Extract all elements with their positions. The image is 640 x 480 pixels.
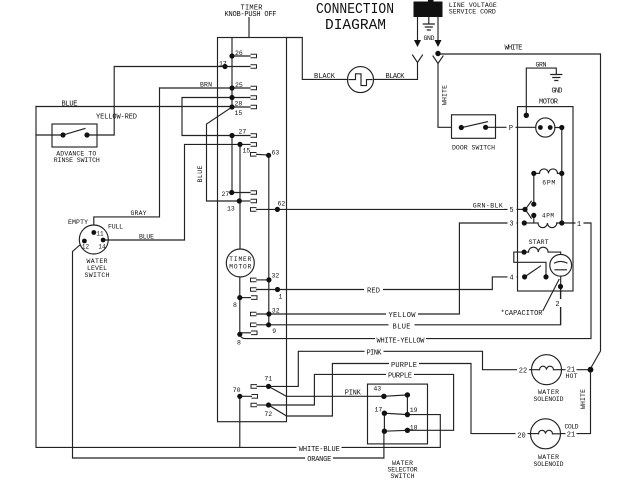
timer contact 15 row / wire BLUE from rinse switch <box>36 106 250 109</box>
svg-text:PINK: PINK <box>345 389 362 397</box>
svg-text:71: 71 <box>264 376 272 383</box>
capacitor C1 <box>550 254 572 324</box>
svg-text:GND: GND <box>424 35 435 42</box>
selector lever 43 <box>384 395 408 396</box>
plug left lead with disconnect arrows <box>413 17 423 63</box>
svg-text:FULL: FULL <box>108 224 123 231</box>
door switch dots <box>459 125 464 130</box>
svg-text:WHITE: WHITE <box>442 85 449 105</box>
svg-text:P: P <box>509 125 513 133</box>
motor thermal protector <box>518 118 562 137</box>
svg-text:WHITE: WHITE <box>580 389 587 409</box>
label WHITE rotated right <box>580 389 590 412</box>
wire PURPLE2 timer 72 to selector 18 <box>269 374 454 430</box>
wire BLUE water level 14 to riser <box>103 239 184 241</box>
svg-text:KNOB-PUSH OFF: KNOB-PUSH OFF <box>225 11 277 19</box>
svg-text:HOT: HOT <box>566 373 578 380</box>
timer rail 63-32-32-9 <box>268 155 270 324</box>
svg-text:WHITE-YELLOW: WHITE-YELLOW <box>377 338 426 346</box>
svg-text:*CAPACITOR: *CAPACITOR <box>501 310 544 318</box>
svg-text:DIAGRAM: DIAGRAM <box>325 17 386 34</box>
svg-text:5: 5 <box>509 207 513 215</box>
timer contact 15b row, riser from water level BLUE <box>185 144 251 239</box>
svg-text:SERVICE CORD: SERVICE CORD <box>449 9 496 16</box>
svg-text:BLUE: BLUE <box>393 324 411 332</box>
timer contact red-dot row / wire RED to motor pin 4 <box>257 277 518 290</box>
ground symbol under plug <box>423 17 434 30</box>
wire WHITE-BLUE long run to selector 19 <box>36 107 440 448</box>
svg-text:PURPLE: PURPLE <box>391 362 417 370</box>
timer contact 13 row <box>239 200 250 202</box>
svg-text:8: 8 <box>237 340 241 347</box>
timer contact 9 row / wire BLUE to capacitor pin 2 <box>257 287 561 325</box>
timer contact 32L row / wire YELLOW to motor pin 3 <box>257 223 518 314</box>
svg-text:ORANGE: ORANGE <box>307 456 331 464</box>
svg-text:72: 72 <box>264 411 272 418</box>
svg-text:15: 15 <box>235 110 243 117</box>
svg-text:4: 4 <box>509 275 513 283</box>
svg-text:28: 28 <box>235 101 243 108</box>
wire BLACK from timer top to left plug lead <box>287 38 418 80</box>
svg-text:21: 21 <box>567 431 575 439</box>
timer lever 71 <box>269 386 287 396</box>
svg-text:YELLOW: YELLOW <box>389 312 417 320</box>
svg-text:2: 2 <box>555 301 559 309</box>
svg-text:22: 22 <box>519 367 527 375</box>
wire WHITE down to door switch <box>438 64 461 128</box>
timer contact 8 lower row <box>240 332 251 334</box>
svg-text:3: 3 <box>509 221 513 229</box>
motor 4PM winding <box>524 223 573 228</box>
svg-text:WATER: WATER <box>87 258 108 265</box>
svg-text:26: 26 <box>235 50 243 57</box>
timer contact 71 row <box>257 385 269 387</box>
label 2 capacitor <box>554 299 562 309</box>
wire WHITE-YELLOW from timer 8 to motor pin 1 <box>240 223 591 339</box>
svg-text:27: 27 <box>239 129 247 136</box>
timer contact 27b row <box>232 192 250 194</box>
timer contact 26 <box>232 55 250 57</box>
svg-text:32: 32 <box>272 308 280 315</box>
plug right lead with disconnect arrows <box>433 17 443 64</box>
water level switch S3 <box>79 225 108 254</box>
svg-text:15: 15 <box>243 148 251 155</box>
timer lever 72 <box>269 405 287 416</box>
motor 6PM winding <box>534 169 562 174</box>
capacitor callout line <box>543 280 559 311</box>
selector switch box <box>368 384 428 444</box>
svg-text:9: 9 <box>272 328 276 335</box>
timer box outline <box>218 38 287 422</box>
wire GRN and chassis ground <box>526 68 562 115</box>
label GRN-BLK and motor pin numbers <box>471 201 504 210</box>
svg-text:63: 63 <box>272 150 280 157</box>
timer rail 15b-13-timer motor <box>239 144 241 249</box>
svg-text:4PM: 4PM <box>542 213 554 220</box>
wire WHITE right side to cold solenoid <box>561 370 591 434</box>
svg-text:GRN: GRN <box>536 62 547 69</box>
selector lever 17-19 <box>384 413 407 414</box>
motor box outline <box>518 107 574 291</box>
motor start switch jog <box>514 252 546 277</box>
svg-text:WHITE-BLUE: WHITE-BLUE <box>299 446 340 454</box>
svg-text:SWITCH: SWITCH <box>391 473 415 480</box>
rinse switch dots <box>60 132 65 137</box>
node hot solenoid 21 <box>588 367 594 373</box>
svg-text:43: 43 <box>373 386 381 393</box>
svg-text:PURPLE: PURPLE <box>388 373 412 381</box>
timer contact 32 row <box>257 279 269 281</box>
cold water solenoid L2 <box>531 419 561 449</box>
svg-text:20: 20 <box>517 432 525 440</box>
hot water solenoid L1 <box>532 355 591 385</box>
selector rail 43b-19 <box>406 395 408 415</box>
svg-text:BLACK: BLACK <box>386 73 406 81</box>
svg-text:SOLENOID: SOLENOID <box>534 461 564 468</box>
wire PINK timer 71 to hot solenoid <box>269 351 532 386</box>
timer contact dots <box>229 53 234 58</box>
door switch S1 <box>452 115 518 139</box>
timer lever 15 and riser to 13 <box>207 107 240 201</box>
motor centrifugal switch <box>518 173 534 223</box>
timer knob shaft <box>248 18 250 38</box>
svg-text:BRN: BRN <box>200 82 212 89</box>
timer contact 25 / wire BRN <box>160 87 251 89</box>
svg-text:17: 17 <box>375 407 383 414</box>
label WHITE rotated left <box>439 84 449 106</box>
timer contact 28 jog to 27 <box>182 98 250 136</box>
svg-text:BLACK: BLACK <box>314 73 336 81</box>
svg-text:COLD: COLD <box>565 423 579 430</box>
selector rail 17-common <box>383 413 385 431</box>
timer internal rail 26-25-28-15 <box>231 38 233 108</box>
svg-text:EMPTY: EMPTY <box>68 219 88 226</box>
svg-text:12: 12 <box>82 244 90 251</box>
selector lever common-18 <box>384 429 407 432</box>
timer contact 8 upper row <box>240 297 251 299</box>
node below plug right lead <box>435 51 440 56</box>
wire PURPLE1 lever72 tip to cold solenoid <box>287 364 531 434</box>
timer contact 72 row <box>257 404 269 406</box>
plug connector (line voltage service cord) <box>414 0 443 17</box>
motor start switch blade <box>525 266 541 277</box>
timer contact 63 row <box>257 153 269 156</box>
wire GRAY riser BRN-GRAY <box>94 88 160 233</box>
wire color labels on rows <box>364 285 383 296</box>
svg-text:GRAY: GRAY <box>131 210 147 217</box>
timer contact 27 row and rail 27-27 <box>232 136 250 193</box>
svg-text:11: 11 <box>96 231 104 238</box>
timer contact 62 / wire GRN-BLK to motor pin 5 <box>257 208 518 210</box>
svg-text:62: 62 <box>278 201 286 208</box>
svg-text:1: 1 <box>279 294 283 301</box>
svg-text:GND: GND <box>552 88 563 96</box>
label P <box>507 123 516 134</box>
svg-text:32: 32 <box>272 273 280 280</box>
svg-text:27: 27 <box>222 191 230 198</box>
svg-text:START: START <box>529 239 549 246</box>
labels hot solenoid 22 21 HOT <box>517 365 529 375</box>
svg-text:SOLENOID: SOLENOID <box>534 396 564 403</box>
advance to rinse switch S2 <box>36 124 97 147</box>
svg-text:BLUE: BLUE <box>197 165 204 182</box>
svg-text:LEVEL: LEVEL <box>87 265 107 272</box>
svg-text:BLUE: BLUE <box>62 101 78 109</box>
motor START winding <box>524 247 561 254</box>
svg-text:70: 70 <box>233 387 241 394</box>
labels cold solenoid 20 COLD 21 <box>516 430 528 440</box>
water level switch dots <box>91 230 96 235</box>
wire YELLOW-RED: rinse switch to timer 17 <box>97 67 250 136</box>
svg-text:MOTOR: MOTOR <box>539 99 559 107</box>
wire PINK2 to selector 43 <box>287 395 384 397</box>
svg-text:SWITCH: SWITCH <box>85 272 110 279</box>
timer contact clips open-left <box>251 54 257 58</box>
svg-text:GRN-BLK: GRN-BLK <box>473 203 503 210</box>
svg-text:14: 14 <box>98 244 106 251</box>
noise filter FL1 <box>348 67 374 93</box>
svg-text:RED: RED <box>367 288 380 296</box>
svg-text:YELLOW-RED: YELLOW-RED <box>96 114 137 122</box>
timer motor M2 <box>226 249 254 277</box>
svg-text:PINK: PINK <box>367 350 383 358</box>
svg-text:19: 19 <box>410 407 418 414</box>
timer contact 70 and drop to white-blue <box>240 396 252 447</box>
svg-text:WHITE: WHITE <box>505 45 523 53</box>
svg-text:TIMER: TIMER <box>229 256 251 263</box>
svg-text:BLUE: BLUE <box>139 234 154 241</box>
wire ORANGE water level 12 to selector common <box>73 241 384 458</box>
timer contact clips open-right <box>251 153 257 157</box>
timer motor lower lead to contacts 8 <box>239 277 241 334</box>
svg-text:MOTOR: MOTOR <box>229 264 251 271</box>
wire WHITE top run to right side <box>438 54 601 368</box>
motor dots <box>524 113 529 118</box>
motor right rail <box>561 128 563 224</box>
svg-text:17: 17 <box>219 61 227 68</box>
svg-text:1: 1 <box>577 221 581 229</box>
svg-text:18: 18 <box>410 425 418 432</box>
svg-text:6PM: 6PM <box>542 180 555 187</box>
svg-text:13: 13 <box>227 206 235 213</box>
svg-text:8: 8 <box>233 302 237 309</box>
svg-text:CONNECTION: CONNECTION <box>316 1 394 18</box>
svg-text:25: 25 <box>235 82 243 89</box>
selector switch dots <box>381 394 386 399</box>
svg-text:RINSE SWITCH: RINSE SWITCH <box>54 157 100 164</box>
svg-text:DOOR SWITCH: DOOR SWITCH <box>452 145 495 152</box>
